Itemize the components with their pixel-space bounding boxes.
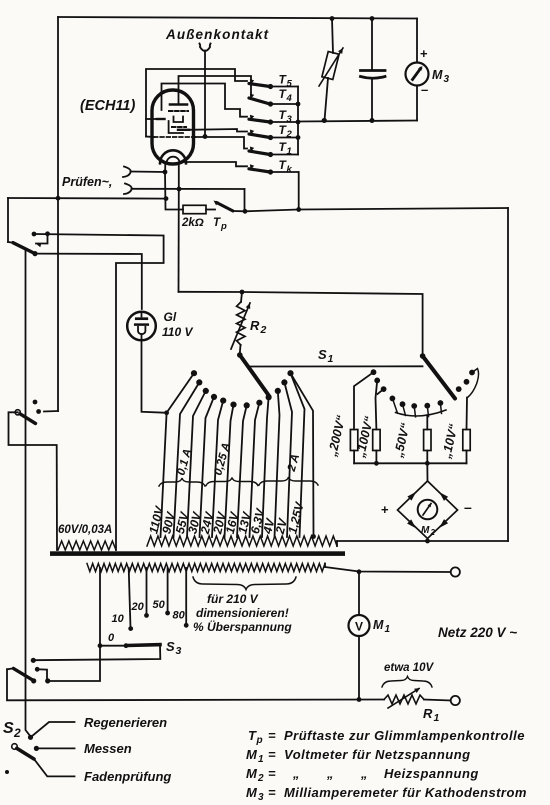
wire hook1 to heater node <box>131 171 166 174</box>
svg-text:R: R <box>250 318 260 333</box>
diode D4 <box>439 519 448 528</box>
wire heater node down to resistor <box>165 172 183 210</box>
wire 24V tap <box>212 401 223 537</box>
wire Tp to junction <box>233 210 245 212</box>
tap 80 <box>185 568 187 625</box>
wire range resistor bus <box>353 451 355 464</box>
svg-text:60V/0,03A: 60V/0,03A <box>58 524 112 536</box>
switch S4a lever <box>8 241 13 244</box>
wire glow lamp down to 110V tap node <box>142 340 167 413</box>
svg-text:S: S <box>3 720 14 737</box>
svg-text:M: M <box>246 785 258 800</box>
svg-text:Heizspannung: Heizspannung <box>384 766 479 781</box>
wire 90V tap <box>174 382 200 537</box>
svg-text:Außenkontakt: Außenkontakt <box>165 27 269 42</box>
wire bus to bridge <box>426 463 428 481</box>
wire resistor to Tp pivot <box>206 209 215 211</box>
pushbutton Tp lever <box>217 203 234 212</box>
wire 110V tap <box>167 373 194 413</box>
svg-text:2: 2 <box>286 129 293 140</box>
svg-text:Gl: Gl <box>164 310 177 324</box>
switch S2 lever <box>12 744 18 750</box>
switch S1 link line <box>248 365 423 367</box>
svg-text:=: = <box>268 785 276 800</box>
tap 50 <box>167 568 169 613</box>
tube heater arc <box>160 150 186 163</box>
wire 2V tap <box>284 382 292 537</box>
svg-text:% Überspannung: % Überspannung <box>193 619 292 634</box>
svg-text:80: 80 <box>173 610 186 622</box>
wire cathode node down to R2 row <box>178 189 180 292</box>
tap 20 <box>146 568 148 615</box>
svg-text:„: „ <box>326 766 334 781</box>
switch T5 <box>250 79 254 85</box>
switch Tk <box>250 164 254 170</box>
svg-text:=: = <box>268 747 276 762</box>
tube grid dashes 1 <box>169 110 188 112</box>
wire 0-tap to S3 <box>100 645 126 647</box>
switch T2 <box>250 130 254 136</box>
potentiometer shunt <box>332 19 333 54</box>
svg-text:2: 2 <box>257 773 264 784</box>
svg-text:Milliamperemeter für Kathodens: Milliamperemeter für Kathodenstrom <box>284 785 527 800</box>
svg-text:+: + <box>381 502 389 517</box>
wire 20V tap <box>225 405 234 537</box>
wire 60V left lead <box>9 412 58 550</box>
glow lamp Gl <box>127 312 156 341</box>
resistor 50V <box>424 430 431 451</box>
brace R1 <box>382 677 432 688</box>
svg-text:–: – <box>421 82 428 97</box>
svg-text:Netz 220 V ~: Netz 220 V ~ <box>438 625 517 640</box>
brace fuer 210V <box>193 577 296 590</box>
switch S4a upper contacts <box>32 232 37 237</box>
svg-text:–: – <box>464 499 472 515</box>
svg-text:etwa 10V: etwa 10V <box>384 662 435 674</box>
switch S2 contact Messen <box>34 746 39 751</box>
S1 right contact 100V <box>374 378 380 384</box>
svg-text:M: M <box>421 525 430 536</box>
svg-text:0: 0 <box>108 632 115 644</box>
wire contact row to 60V winding (Z path) <box>34 234 164 550</box>
wire 55V tap <box>187 391 206 537</box>
tube triode anode <box>170 103 187 106</box>
svg-text:4: 4 <box>286 93 293 104</box>
svg-text:Messen: Messen <box>84 741 132 756</box>
wire Tp-output bus to right side <box>245 208 508 211</box>
svg-text:3: 3 <box>176 645 182 657</box>
svg-text:2: 2 <box>430 528 436 537</box>
svg-text:110 V: 110 V <box>162 325 193 339</box>
svg-text:Prüftaste zur Glimmlampenkontr: Prüftaste zur Glimmlampenkontrolle <box>284 728 525 743</box>
transformer core <box>50 551 345 556</box>
svg-text:R: R <box>423 706 433 721</box>
S1 right contact 200V <box>371 369 377 375</box>
meter M3 <box>416 19 418 63</box>
svg-text:2kΩ: 2kΩ <box>181 217 204 229</box>
wire 4V tap <box>275 391 280 537</box>
wire 16V tap <box>237 405 247 537</box>
wire top bus <box>58 17 417 19</box>
wire R1 to terminal <box>424 700 451 701</box>
wire electrode to box <box>146 118 157 120</box>
wire outer left upper <box>7 198 9 242</box>
svg-text:„200V“: „200V“ <box>325 413 348 458</box>
svg-text:M: M <box>246 766 258 781</box>
meter M2 <box>418 500 438 520</box>
svg-text:„10V“: „10V“ <box>439 422 461 461</box>
wire T bus vertical <box>297 87 299 155</box>
resistor 200V <box>350 430 357 451</box>
svg-text:50: 50 <box>153 599 166 611</box>
tube U1 envelope <box>152 90 194 164</box>
wire grid row to T3 <box>162 84 248 117</box>
S1 right contacts 10V <box>456 386 462 392</box>
svg-text:„: „ <box>292 766 300 781</box>
node line B from outer left to 2k-ohm feed <box>8 197 166 200</box>
svg-text:S: S <box>166 639 175 654</box>
switch S4c contacts <box>35 667 40 672</box>
svg-text:S: S <box>318 347 327 362</box>
wire cathode row to Tk <box>184 162 248 166</box>
svg-text:1: 1 <box>328 353 334 365</box>
switch S4b lever <box>15 410 20 415</box>
tube cathode cup <box>174 117 184 123</box>
tube grid dashes 3 row <box>154 136 196 138</box>
wire pivot down to bottom bus <box>7 669 384 700</box>
wire left inner border <box>57 17 59 411</box>
switch T1 <box>250 147 254 153</box>
resistor 10V <box>463 430 470 451</box>
svg-text:2: 2 <box>260 324 267 336</box>
transformer secondary winding <box>147 536 337 546</box>
svg-text:=: = <box>268 766 276 781</box>
tube hexode anode <box>178 129 189 131</box>
wire common to Regenerieren contact <box>28 735 33 740</box>
wire winding end line <box>291 373 314 535</box>
svg-text:p: p <box>256 735 263 746</box>
wire bottom bus <box>337 540 508 542</box>
wire 0-tap down to lever line <box>48 646 100 681</box>
diode D3 <box>407 519 416 528</box>
S1 left contact fan <box>191 370 197 376</box>
svg-text:2: 2 <box>13 726 21 740</box>
switch S4c lever <box>13 668 33 680</box>
svg-text:1: 1 <box>434 712 440 724</box>
svg-text:2 A: 2 A <box>286 453 303 474</box>
svg-text:5: 5 <box>287 79 293 90</box>
meter M1 <box>358 572 360 615</box>
svg-text:dimensionieren!: dimensionieren! <box>196 606 289 620</box>
transformer primary winding <box>87 564 325 572</box>
connector hook Pruefen lower <box>124 184 132 195</box>
wire 13V tap <box>250 403 260 537</box>
tap 10 <box>129 568 131 628</box>
wire primary to Netz terminal <box>324 564 326 568</box>
connector hook Aussenkontakt <box>200 44 211 52</box>
wire S3 return <box>35 645 161 660</box>
current group brace <box>159 478 205 486</box>
svg-text:10: 10 <box>112 613 125 625</box>
rheostat R2 <box>237 302 245 345</box>
winding 60V/0.03A <box>58 541 116 550</box>
svg-text:„: „ <box>360 766 368 781</box>
wire T3 row to M3 bus <box>298 121 417 122</box>
wire border elbow to contact <box>44 410 58 413</box>
wire 1,25V tap <box>291 373 305 537</box>
svg-text:1: 1 <box>385 624 391 635</box>
wire 6,3V tap <box>262 397 269 537</box>
switch S2 lead Regenerieren <box>31 722 75 737</box>
node lower left <box>5 770 9 774</box>
svg-text:V: V <box>355 620 363 634</box>
resistor 100V <box>373 430 380 451</box>
svg-text:p: p <box>220 221 227 232</box>
tube heater lead right / cathode drop <box>178 164 180 190</box>
svg-text:3: 3 <box>444 74 450 85</box>
svg-text:Fadenprüfung: Fadenprüfung <box>84 769 171 784</box>
svg-text:=: = <box>268 728 276 743</box>
svg-text:3: 3 <box>287 114 293 125</box>
wire line A drop to Tp output <box>244 189 246 211</box>
wire anode row to T4 <box>179 76 252 105</box>
tube left electrode <box>157 118 165 120</box>
wire 30V tap <box>200 397 215 537</box>
switch T4 <box>250 94 254 100</box>
wire right border down <box>507 208 509 541</box>
wire hexode anode row to T2 <box>189 129 247 132</box>
wire Aussenkontakt down <box>204 51 206 138</box>
terminal Netz top <box>451 567 460 576</box>
tube hexode grid dashes 2 <box>172 126 186 128</box>
switch S1 left lever <box>237 352 243 358</box>
terminal Netz bottom <box>451 696 460 705</box>
switch S1 right lever <box>420 353 426 359</box>
wire cathode row to R2 and S1 pivot <box>179 292 423 354</box>
svg-text:k: k <box>287 164 293 175</box>
svg-text:(ECH11): (ECH11) <box>80 98 135 114</box>
wire Tk down to Tp bus <box>298 172 300 210</box>
svg-text:M: M <box>432 68 443 82</box>
switch T3 <box>250 115 254 121</box>
resistor 2kOhm <box>183 205 206 213</box>
svg-text:1: 1 <box>287 146 292 157</box>
svg-text:für 210 V: für 210 V <box>207 592 259 606</box>
svg-text:T: T <box>213 217 221 229</box>
wire line A hook2 to cathode node <box>132 188 245 190</box>
diode D1 <box>407 492 416 501</box>
svg-text:3: 3 <box>258 792 264 803</box>
tube heater lead left <box>164 164 166 173</box>
bridge rectifier with meter M2 <box>398 481 458 539</box>
wire arc to 50V resistor <box>426 416 428 429</box>
svg-text:Prüfen~,: Prüfen~, <box>62 175 112 189</box>
tap 0 <box>99 568 101 646</box>
svg-text:M: M <box>246 747 258 762</box>
wire bridge to bottom bus <box>427 539 429 542</box>
rheostat R1 <box>384 695 424 704</box>
switch S3 slider bar <box>127 643 160 648</box>
diode D2 <box>439 492 448 501</box>
wire common down to S2 region <box>26 249 31 737</box>
svg-text:+: + <box>420 46 428 61</box>
S1 right middle arc contacts <box>390 396 396 402</box>
svg-text:Regenerieren: Regenerieren <box>84 715 167 730</box>
svg-text:M: M <box>373 618 384 632</box>
tube cathode internal lead <box>169 121 183 133</box>
wire grid box <box>146 69 247 137</box>
capacitor C1 electrolytic <box>371 19 373 70</box>
wire lever row to glow lamp <box>35 254 142 309</box>
svg-text:1: 1 <box>258 754 264 765</box>
switch S2 lead Fadenpruefung <box>34 759 75 776</box>
svg-text:Voltmeter für Netzspannung: Voltmeter für Netzspannung <box>284 747 471 762</box>
svg-text:„50V“: „50V“ <box>391 421 413 460</box>
connector hook Pruefen upper <box>123 167 131 178</box>
svg-text:20: 20 <box>131 601 145 613</box>
wire box bottom row to T1 <box>146 136 154 139</box>
